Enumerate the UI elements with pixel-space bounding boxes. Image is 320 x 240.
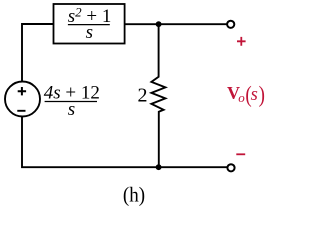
wire: left vertical below source to bottom-left corner [22,117,227,168]
svg-text:2: 2 [138,85,148,107]
svg-text:): ) [259,81,265,107]
terminal bottom-right [227,164,234,171]
voltage source minus sign [17,110,25,112]
terminal top-right [227,21,234,28]
svg-text:o: o [238,90,245,105]
node dot top junction [156,21,162,27]
resistor R (2 ohm) zigzag with leads [151,24,165,167]
wire: top-left segment from left corner to box [22,24,54,82]
output polarity plus (red) [237,37,246,46]
impedance box Z1 [54,4,125,44]
value label fraction bar [68,24,110,26]
svg-text:s: s [86,22,93,43]
voltage source plus sign [18,87,26,95]
source value fraction bar [45,101,97,103]
voltage source VS circle [5,82,40,117]
wire: box right edge to top-right terminal [125,23,227,25]
node dot bottom junction [156,164,162,170]
output polarity minus (red) [236,153,245,155]
svg-text:s: s [68,99,75,120]
svg-text:s: s [251,85,258,105]
svg-text:(h): (h) [123,184,145,207]
